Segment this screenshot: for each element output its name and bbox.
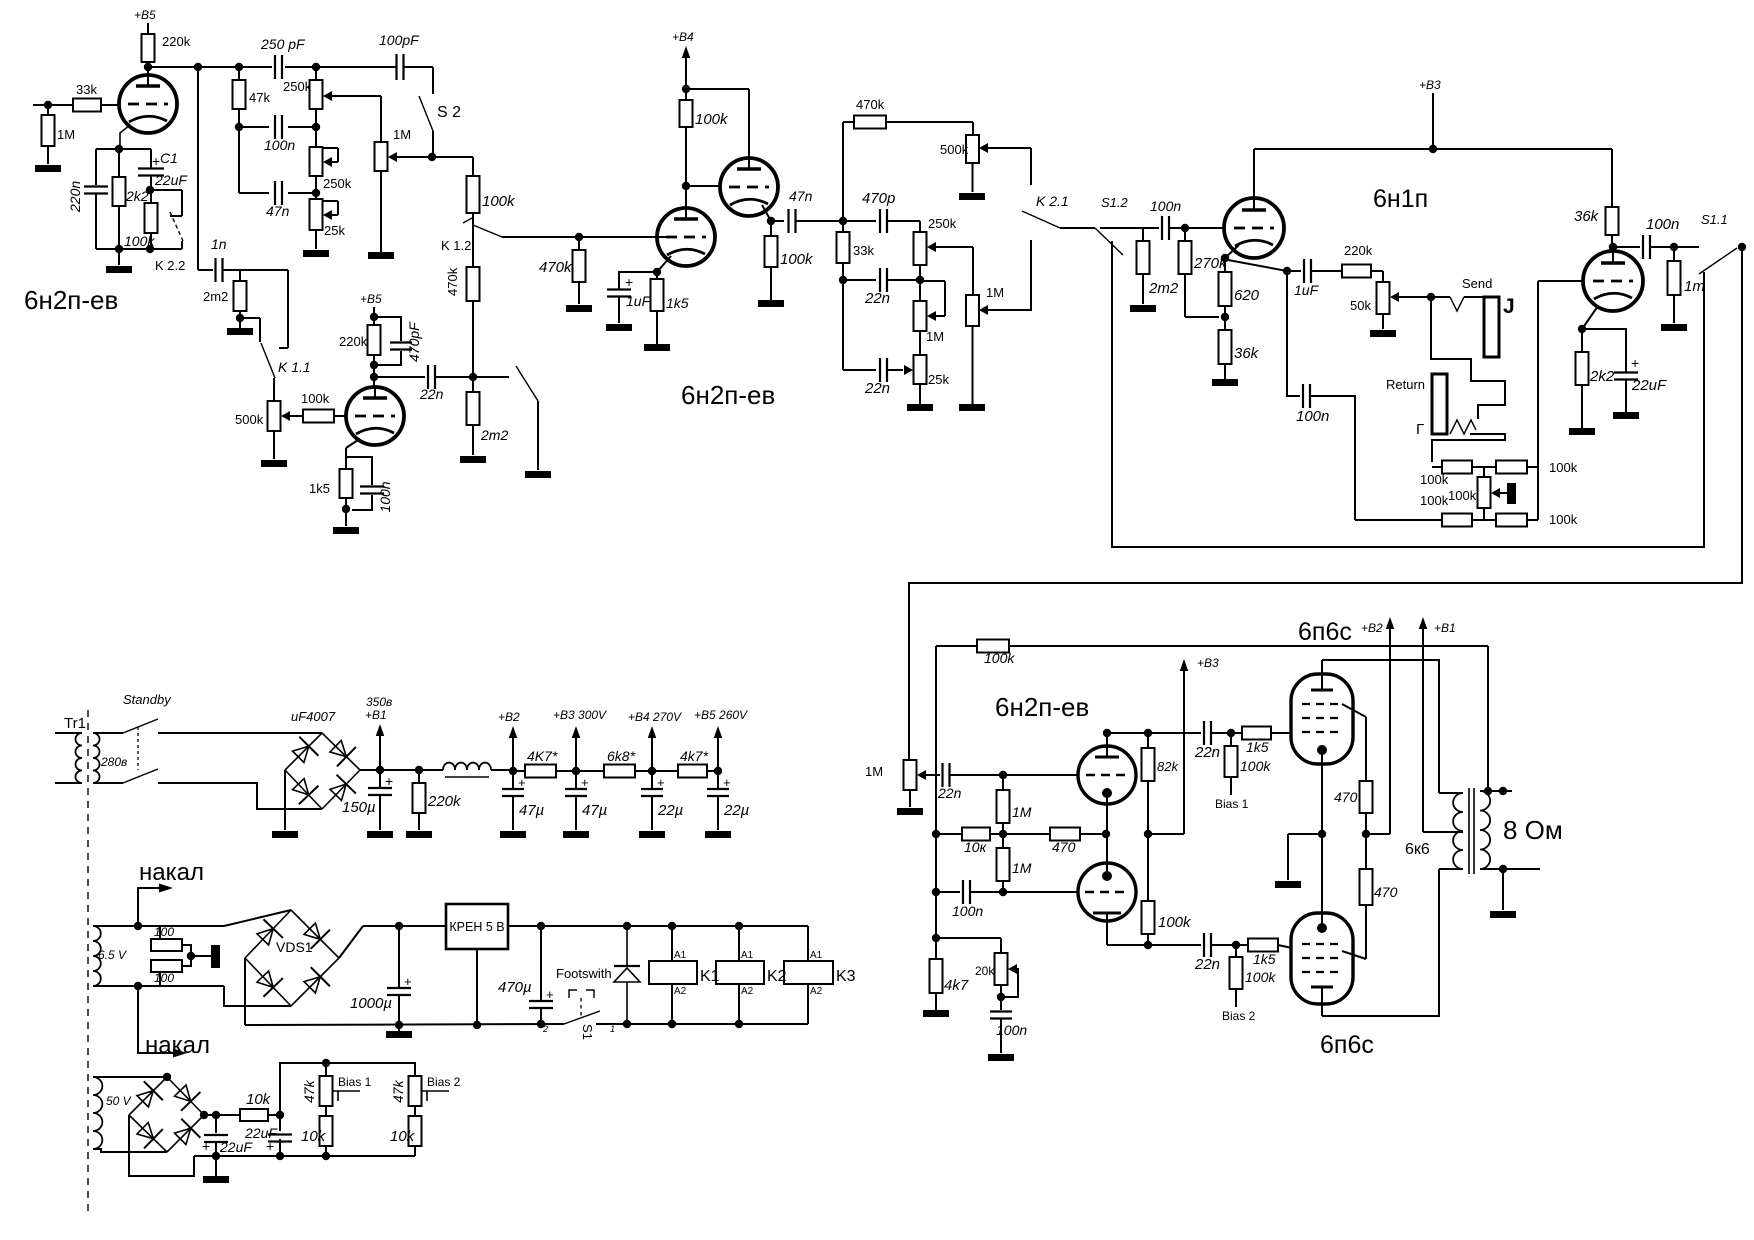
potentiometer 250k ts2 (919, 221, 921, 232)
capacitor 22uF bias 1 (215, 1115, 217, 1133)
pot 25k wiper (323, 210, 332, 220)
wire cathode to ground (1288, 833, 1322, 835)
node grid V4a (999, 771, 1007, 779)
resistor 220k plate load (142, 34, 155, 62)
node cathode 6p6s (1318, 830, 1326, 838)
svg-text:250k: 250k (323, 176, 352, 191)
svg-text:10к: 10к (964, 839, 988, 855)
wire 1M upper down (1002, 823, 1004, 834)
resistor 220k loop (1342, 265, 1371, 278)
tube T6 6p6s lower (1291, 913, 1353, 1004)
svg-text:+: + (202, 1138, 210, 1154)
resistor 100k bias1 (1230, 733, 1232, 746)
wire 2k2 V3b ground (1581, 385, 1583, 428)
svg-text:22n: 22n (419, 386, 444, 402)
node coupling ch1 (469, 373, 477, 381)
wire screen T5 (1342, 704, 1366, 717)
wire S1.1 to power amp (909, 247, 1742, 760)
wire to ground 2m2 (239, 318, 241, 328)
svg-text:470µ: 470µ (498, 979, 532, 996)
node fb tail c (932, 934, 940, 942)
jack switch send (1450, 297, 1464, 311)
wire 20k bottom (1000, 985, 1002, 1010)
resistor 4K7* dropper (513, 770, 525, 772)
node KREN gnd pin (476, 949, 478, 1025)
wire 1k5 to node (345, 498, 347, 526)
svg-text:470: 470 (1374, 884, 1398, 900)
wire plate V4a to 22n (1107, 732, 1201, 734)
wire 33k to grid (101, 104, 119, 106)
resistor 100k mix row2 left (1355, 519, 1442, 521)
ground 6p6s cathode (1275, 881, 1301, 888)
node bias1 (1227, 729, 1235, 737)
svg-text:470pF: 470pF (406, 321, 422, 362)
svg-text:100k: 100k (1245, 969, 1276, 985)
svg-text:+B5: +B5 (360, 292, 382, 306)
svg-text:100k: 100k (482, 193, 516, 210)
wire feedback drop (935, 646, 937, 938)
svg-text:6н2п-ев: 6н2п-ев (995, 692, 1089, 722)
resistor 470 screen upper (1360, 781, 1373, 813)
svg-text:100k: 100k (301, 391, 330, 406)
node +B4 (648, 767, 656, 775)
capacitor 1n (214, 258, 216, 282)
svg-text:6н2п-ев: 6н2п-ев (681, 380, 775, 410)
svg-text:+B2: +B2 (1361, 621, 1383, 635)
node K2 bottom (735, 1020, 743, 1028)
transformer 280V winding (93, 733, 100, 783)
wire 82k to B3 (1147, 781, 1149, 834)
capacitor 1uF cathode bypass (619, 272, 657, 289)
node 22n tap (370, 373, 378, 381)
svg-text:1M: 1M (986, 285, 1004, 300)
wire 1M lower down (1002, 881, 1004, 892)
pot 1M PI wiper (917, 770, 926, 780)
resistor 1k5 cathode V1b (340, 469, 353, 498)
svg-text:22µ: 22µ (657, 802, 683, 819)
wire 22uF bias2 down (279, 1139, 281, 1156)
capacitor 100n PI (936, 891, 960, 893)
ground 4k7 (923, 1010, 949, 1017)
wire cathode rail T5 T6 (1321, 750, 1323, 928)
wire humdinger (191, 955, 211, 957)
svg-text:20k: 20k (975, 964, 995, 978)
svg-text:8 Ом: 8 Ом (1503, 815, 1563, 845)
svg-text:накал: накал (139, 859, 204, 886)
wire bridge minus (284, 770, 286, 830)
wire VDS1 minus (244, 958, 246, 1025)
wire 1k5 to grid T6 (1278, 945, 1292, 948)
node B1 raw (376, 766, 384, 774)
wire bias1 stub (1230, 777, 1232, 795)
node 620 bottom (1221, 313, 1229, 321)
relay K1 coil (649, 961, 697, 984)
resistor 2k2 cathode V3b (1581, 329, 1583, 352)
wire 470 to cathode (1080, 833, 1107, 835)
svg-text:1m: 1m (1684, 278, 1705, 295)
resistor 36k plate V3b (1606, 207, 1619, 235)
footswitch symbol (569, 990, 577, 998)
svg-text:S1.2: S1.2 (1101, 195, 1129, 210)
switch K2.2 contact (150, 189, 182, 191)
resistor 1m output load (1673, 247, 1675, 261)
wire B3 feed (1148, 833, 1184, 835)
wire plate to V2b grid (686, 185, 720, 187)
wire to ground V1a (118, 249, 120, 265)
net +B3 arrow PA (1180, 659, 1189, 671)
node +B4 (682, 85, 690, 93)
wire 220k bleed gnd (418, 813, 420, 830)
svg-text:2m2: 2m2 (203, 289, 228, 304)
wire 100k down (150, 233, 152, 249)
jack J return (1432, 374, 1447, 434)
ground 22uF B5 (705, 831, 731, 838)
svg-text:33k: 33k (853, 243, 874, 258)
svg-text:+: + (581, 775, 589, 790)
svg-text:1M: 1M (1012, 860, 1032, 876)
wire 22uF B4 gnd (651, 796, 653, 830)
node 2m2 bottom (236, 314, 244, 322)
wire K2.1 to S1.2 (1060, 227, 1095, 229)
svg-text:Footswith: Footswith (556, 966, 612, 981)
wire 1000uF down (398, 995, 400, 1025)
wire rail drop to 1n (197, 67, 199, 270)
capacitor 22n drive lower (1203, 933, 1205, 957)
svg-text:+B5: +B5 (134, 8, 156, 22)
wire S1.2 to 100n (1100, 227, 1159, 229)
potentiometer 47k bias2 (409, 1076, 422, 1106)
svg-text:+: + (404, 974, 412, 989)
wire bias bottom rail (194, 1155, 415, 1157)
wire plate V3a (1253, 149, 1255, 207)
wire B1 to center tap (1423, 831, 1463, 833)
ground 150uF (367, 831, 393, 838)
wire 100n tail ground (1000, 1019, 1002, 1053)
svg-text:470p: 470p (862, 190, 895, 207)
wire bias top rail (280, 1063, 415, 1115)
resistor 100 ht lower (159, 972, 161, 986)
regulator KREN 5V (446, 904, 508, 949)
potentiometer 20k hum (1000, 938, 1002, 953)
wire +B5 to R 220k (147, 23, 149, 34)
capacitor 22uF B5 (717, 771, 719, 789)
node bias2 (1232, 941, 1240, 949)
svg-text:Tr1: Tr1 (64, 715, 86, 732)
wire bias gnd stub (215, 1156, 217, 1176)
svg-text:+B4 270V: +B4 270V (628, 710, 682, 724)
pot 47k bias1 tap (332, 1090, 360, 1092)
node bias gnd b (276, 1152, 284, 1160)
wire 100k to grid V1b (334, 415, 346, 417)
resistor 1k5 cathode V2a (656, 272, 658, 279)
svg-text:+B3 300V: +B3 300V (553, 708, 607, 722)
svg-text:50 V: 50 V (106, 1094, 132, 1108)
wire 1m to ground (1673, 295, 1675, 323)
svg-text:A1: A1 (741, 950, 754, 961)
wire plate rail (148, 66, 272, 68)
svg-text:Bias 1: Bias 1 (1215, 797, 1249, 811)
resistor 4k7* dropper 2 (678, 765, 707, 778)
svg-text:36k: 36k (1234, 345, 1260, 362)
svg-text:K3: K3 (836, 968, 856, 985)
capacitor 22uF bias 2 (279, 1115, 281, 1131)
wire nakal 1 arrow (138, 888, 164, 926)
ground 25k ts2 (907, 404, 933, 411)
resistor 100k mix ch1 (467, 176, 480, 213)
svg-text:22uF: 22uF (219, 1139, 253, 1155)
node plate V1a (144, 63, 152, 71)
svg-text:100n: 100n (1296, 408, 1329, 425)
node plate V3b (1609, 243, 1617, 251)
node 470uF top (537, 922, 545, 930)
transformer 6.5V winding (93, 926, 101, 986)
wire 1k5 to grid T5 (1271, 732, 1291, 734)
svg-text:6.5 V: 6.5 V (98, 948, 127, 962)
svg-text:2k2: 2k2 (1589, 368, 1615, 385)
wire 47uF B2 gnd (512, 796, 514, 830)
wire 280V bottom (93, 782, 123, 784)
wire 250k ts2 down (919, 265, 921, 301)
resistor 100k grid V1b (303, 410, 334, 423)
ground rail left (245, 1024, 564, 1025)
node bias filt (276, 1111, 284, 1119)
svg-text:1k5: 1k5 (1246, 739, 1269, 755)
svg-text:K 2.1: K 2.1 (1036, 193, 1069, 209)
node rail 47k tap (235, 63, 243, 71)
wire secondary top (1480, 790, 1512, 792)
svg-text:Bias 2: Bias 2 (427, 1075, 461, 1089)
ground 47uF B3 (563, 831, 589, 838)
node sec top b (1499, 787, 1507, 795)
ground bridge1 (272, 831, 298, 838)
switch K2.1 contact lower (1030, 240, 1032, 311)
svg-text:2: 2 (542, 1024, 548, 1034)
svg-text:22uF: 22uF (1631, 377, 1667, 394)
ground 1M PI (897, 808, 923, 815)
node 47k mid (235, 123, 243, 131)
switch S1.2 lever (1095, 228, 1123, 255)
cathode dot V4a (1102, 788, 1112, 798)
wire 2m2 ch2 down (472, 425, 474, 455)
svg-text:C1: C1 (160, 150, 178, 166)
tube V4a splitter (1078, 746, 1136, 804)
resistor 47k (238, 67, 240, 80)
capacitor 100n cathode V1b (346, 457, 372, 485)
node heater bottom (134, 982, 142, 990)
wire 470uF down (540, 1008, 542, 1024)
wire 220k to plate (373, 355, 375, 387)
resistor 33k grid stopper (73, 99, 101, 112)
capacitor 250pF (274, 55, 276, 79)
node cathode out (1283, 267, 1291, 275)
resistor 2m2 ch2 load (472, 377, 474, 392)
resistor 1k5 grid stop lower (1248, 939, 1278, 952)
capacitor 100n tone (239, 126, 269, 128)
svg-text:100k: 100k (1420, 472, 1449, 487)
wire choke to B2 (491, 769, 513, 771)
capacitor 47uF B3 (575, 771, 577, 789)
svg-text:47k: 47k (301, 1079, 317, 1103)
wire cathode bottom rail (96, 248, 182, 250)
wire 500k to ground (273, 431, 275, 459)
wire 33k down (842, 263, 844, 370)
svg-text:2m2: 2m2 (480, 427, 508, 443)
node +B5 (714, 767, 722, 775)
svg-text:100n: 100n (264, 137, 295, 153)
capacitor 220n cathode (84, 185, 108, 187)
svg-text:22n: 22n (864, 380, 890, 397)
svg-text:+: + (723, 775, 731, 790)
svg-text:470: 470 (1334, 789, 1358, 805)
svg-text:+: + (385, 773, 393, 789)
svg-text:6н1п: 6н1п (1373, 185, 1428, 213)
wire cathode V3a (1225, 245, 1239, 258)
resistor 82k plate V4a (1147, 733, 1149, 748)
wire to C1 (119, 148, 151, 150)
wire 100k V4b to plate (1147, 934, 1149, 945)
ground 2k2 V3b (1569, 428, 1595, 435)
resistor 1M PI upper (1002, 775, 1004, 790)
potentiometer 1M volume ch1 (375, 142, 388, 171)
wire 1n to 2m2/K1.1 (223, 269, 288, 271)
ground 22uF V3b (1613, 412, 1639, 419)
svg-text:4k7*: 4k7* (680, 748, 709, 764)
svg-text:+B5 260V: +B5 260V (694, 708, 748, 722)
node bottom rail b (146, 245, 154, 253)
node volume out (428, 153, 436, 161)
wire 220k to 50k (1371, 270, 1383, 272)
node 470pF bottom (370, 361, 378, 369)
svg-text:1M: 1M (926, 329, 944, 344)
capacitor 100n PI tail (990, 1010, 1012, 1012)
relay K3 coil (784, 961, 833, 984)
resistor 1M input load (47, 105, 49, 115)
resistor 100k mix row1 right (1472, 466, 1496, 468)
node input (44, 101, 52, 109)
svg-text:K 1.1: K 1.1 (278, 359, 311, 375)
node cathode V2b (767, 217, 775, 225)
wire +B5 V1b (373, 307, 375, 317)
svg-text:500k: 500k (235, 412, 264, 427)
svg-text:A2: A2 (674, 986, 687, 997)
ground 1k5 V2a (644, 344, 670, 351)
svg-text:A2: A2 (810, 986, 823, 997)
node K2 top (735, 922, 743, 930)
node B3 join (1144, 830, 1152, 838)
svg-text:220k: 220k (339, 334, 368, 349)
wire 470 junction (1365, 813, 1367, 869)
svg-text:K 1.2: K 1.2 (441, 238, 471, 253)
svg-text:Send: Send (1462, 276, 1492, 291)
wire 10k bias2 down (414, 1146, 416, 1156)
wire 25k to ground (315, 230, 317, 249)
resistor 100 ht upper (159, 926, 161, 940)
svg-text:47k: 47k (249, 90, 270, 105)
svg-text:+B4: +B4 (672, 30, 694, 44)
wire 47uF B3 gnd (575, 796, 577, 830)
wire feedback left (936, 645, 977, 647)
transformer 50V winding (93, 1077, 102, 1149)
ground 100k V2b (758, 300, 784, 307)
potentiometer 100k mix (1483, 467, 1485, 477)
resistor 100k cathode switch leg (150, 190, 152, 203)
transformer Tr1 core dashed (87, 710, 89, 1215)
node cathode V2a (653, 268, 661, 276)
svg-text:Return: Return (1386, 377, 1425, 392)
svg-text:100: 100 (154, 971, 174, 985)
wire bridge plus (360, 769, 380, 771)
node +B2 (509, 767, 517, 775)
pot 50k wiper (1390, 292, 1399, 302)
capacitor 22n ts2 lower (843, 369, 876, 371)
wire to B3 node (556, 770, 604, 772)
resistor 10k bias2 lower (414, 1106, 416, 1116)
capacitor 47n tone (239, 192, 269, 194)
relay K2 coil (716, 961, 764, 984)
wire 6.5V top (93, 925, 138, 927)
svg-text:10k: 10k (246, 1091, 272, 1108)
capacitor 100n dry (1302, 384, 1304, 408)
node plate V4a (1103, 729, 1111, 737)
resistor 220k bleeder (418, 770, 420, 783)
potentiometer 25k ts2 (914, 355, 927, 384)
wire 220n down (95, 194, 97, 249)
capacitor 22uF B4 (651, 771, 653, 789)
svg-text:2k2: 2k2 (125, 188, 149, 204)
node output (1670, 243, 1678, 251)
svg-text:100n: 100n (1150, 198, 1181, 214)
svg-text:22n: 22n (864, 290, 890, 307)
node sec top a (1484, 787, 1492, 795)
svg-text:280в: 280в (100, 755, 127, 769)
capacitor 100n loop in (1161, 216, 1163, 240)
switch K1.1 lever (261, 343, 275, 378)
node screen supply (1362, 830, 1370, 838)
wire K1.1 throw (287, 270, 289, 348)
svg-text:500k: 500k (940, 142, 969, 157)
node plate V2a (682, 182, 690, 190)
wire heater to bridge bottom (224, 986, 291, 1006)
wire K1.1 pole (240, 317, 260, 319)
wire 10k to node (268, 1114, 280, 1116)
diode bridge uF4007 (285, 733, 360, 809)
node bias gnd a (212, 1152, 220, 1160)
cathode dot V4b (1102, 871, 1112, 881)
node bias rail tap (322, 1059, 330, 1067)
node +B3 rail (1429, 145, 1437, 153)
svg-text:1n: 1n (211, 236, 227, 252)
svg-text:A1: A1 (810, 950, 823, 961)
svg-text:+B2: +B2 (498, 710, 520, 724)
resistor 100k bias2 (1235, 945, 1237, 957)
svg-text:+: + (152, 153, 160, 169)
resistor 100k feedback (977, 640, 1009, 653)
wire 50V bottom (93, 1149, 167, 1152)
svg-text:1k5: 1k5 (309, 481, 330, 496)
resistor 6k8* dropper (604, 765, 635, 778)
tube V3b 6n1p triode (1583, 251, 1643, 311)
wire K2.2 down (181, 241, 183, 249)
node 47n out (839, 217, 847, 225)
node cathode join (1102, 830, 1110, 838)
wire pot chain 2 (315, 176, 317, 199)
svg-text:+B1: +B1 (365, 708, 387, 722)
ground tone stack (303, 250, 329, 257)
switch mute lever (516, 366, 538, 401)
node grid V2a (575, 233, 583, 241)
svg-text:250 pF: 250 pF (260, 36, 306, 52)
node plate V4b (1144, 941, 1152, 949)
